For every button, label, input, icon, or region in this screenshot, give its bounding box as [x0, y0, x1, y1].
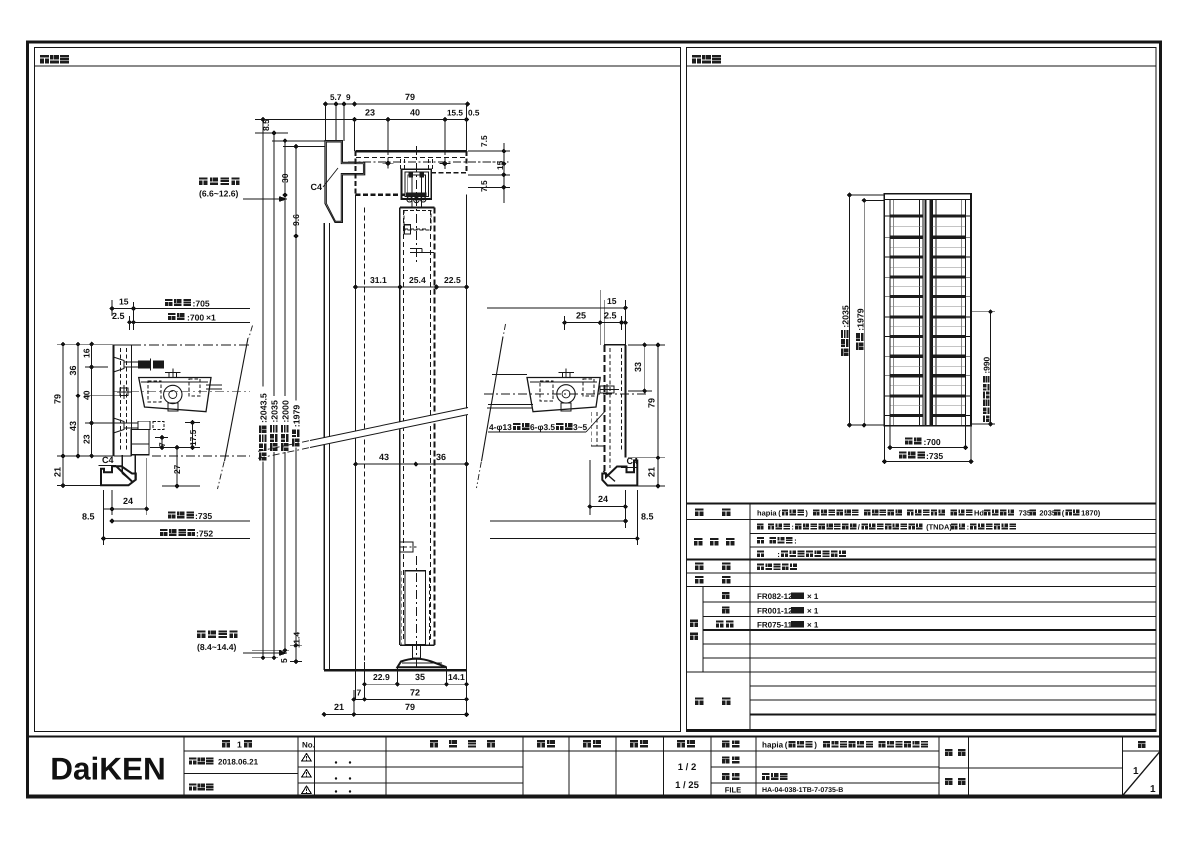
- svg-text:8.5: 8.5: [641, 512, 654, 522]
- svg-text:FR082-12: FR082-12: [757, 592, 793, 601]
- svg-text:FR075-11: FR075-11: [757, 621, 793, 630]
- svg-text:5: 5: [279, 658, 289, 663]
- svg-text:33: 33: [633, 362, 643, 372]
- svg-text:40: 40: [410, 108, 420, 118]
- svg-text:C4: C4: [310, 182, 322, 192]
- svg-text:FILE: FILE: [725, 786, 741, 795]
- svg-text::735: :735: [926, 451, 943, 461]
- svg-text::700: :700: [187, 313, 204, 323]
- svg-text:24: 24: [598, 494, 608, 504]
- svg-text:25.4: 25.4: [409, 275, 426, 285]
- svg-text:23: 23: [82, 434, 92, 444]
- svg-text:7: 7: [157, 442, 167, 447]
- svg-text:7: 7: [357, 688, 362, 698]
- svg-text:23: 23: [365, 108, 375, 118]
- svg-text:17.5: 17.5: [188, 429, 198, 446]
- svg-text:24: 24: [123, 496, 133, 506]
- svg-text::: :: [791, 523, 794, 532]
- svg-text::2043.5: :2043.5: [258, 393, 268, 423]
- svg-text::: :: [777, 550, 780, 559]
- svg-text:735: 735: [1019, 509, 1032, 518]
- svg-text:9.6: 9.6: [291, 214, 301, 226]
- svg-text:1: 1: [237, 740, 242, 750]
- svg-text:2018.06.21: 2018.06.21: [218, 758, 259, 767]
- svg-text:72: 72: [410, 688, 420, 698]
- svg-text:79: 79: [647, 398, 657, 408]
- svg-text:(: (: [785, 741, 788, 750]
- svg-text:C4: C4: [102, 455, 114, 465]
- svg-text:hapia: hapia: [762, 741, 784, 750]
- svg-text:HA-04-038-1TB-7-0735-B: HA-04-038-1TB-7-0735-B: [762, 787, 843, 794]
- svg-text:31.1: 31.1: [370, 275, 387, 285]
- svg-text:35: 35: [415, 672, 425, 682]
- svg-text::1979: :1979: [855, 308, 865, 331]
- svg-text:14.1: 14.1: [448, 672, 465, 682]
- svg-text:43: 43: [379, 452, 389, 462]
- svg-text:21: 21: [647, 467, 657, 477]
- svg-text::705: :705: [193, 299, 210, 309]
- svg-text:15: 15: [119, 297, 129, 307]
- svg-text:43: 43: [68, 421, 78, 431]
- svg-text:79: 79: [405, 702, 415, 712]
- svg-text::990: :990: [981, 356, 991, 373]
- svg-text:Hd: Hd: [974, 509, 984, 518]
- svg-text:FR001-12: FR001-12: [757, 607, 793, 616]
- svg-text:): ): [814, 741, 817, 750]
- svg-text:15.5: 15.5: [447, 109, 463, 118]
- svg-text:No.: No.: [302, 741, 315, 750]
- svg-text:DaiKEN: DaiKEN: [50, 751, 166, 787]
- svg-text:1: 1: [1133, 766, 1139, 777]
- svg-text:15: 15: [607, 296, 617, 306]
- svg-text::2035: :2035: [269, 400, 279, 423]
- svg-text:× 1: × 1: [807, 607, 819, 616]
- svg-text::: :: [967, 523, 970, 532]
- svg-text:79: 79: [405, 92, 415, 102]
- svg-text:×1: ×1: [206, 313, 216, 323]
- svg-text:8.5: 8.5: [82, 512, 95, 522]
- svg-text:× 1: × 1: [807, 592, 819, 601]
- svg-text::2035: :2035: [840, 305, 850, 328]
- svg-text:21: 21: [53, 467, 63, 477]
- svg-text:27: 27: [172, 464, 182, 474]
- svg-text:22.5: 22.5: [444, 275, 461, 285]
- svg-text:1 / 25: 1 / 25: [675, 780, 699, 791]
- svg-text:hapia: hapia: [757, 509, 777, 518]
- svg-text:9: 9: [346, 93, 351, 102]
- svg-text:4-φ13: 4-φ13: [489, 422, 512, 432]
- svg-text:25: 25: [576, 311, 586, 321]
- svg-text:(TNDA): (TNDA): [926, 523, 952, 532]
- svg-text:21: 21: [334, 702, 344, 712]
- svg-text:36: 36: [68, 365, 78, 375]
- svg-text:1: 1: [1150, 784, 1156, 795]
- svg-text:6-φ3.5: 6-φ3.5: [530, 422, 555, 432]
- svg-text::: :: [794, 537, 797, 546]
- svg-text:× 1: × 1: [807, 621, 819, 630]
- svg-text::1979: :1979: [291, 405, 301, 428]
- svg-text::752: :752: [196, 529, 213, 539]
- svg-text:2.5: 2.5: [112, 311, 125, 321]
- svg-text:40: 40: [82, 390, 92, 400]
- svg-text:5.7: 5.7: [330, 93, 342, 102]
- svg-text:0.5: 0.5: [468, 109, 480, 118]
- svg-text:30: 30: [280, 173, 290, 183]
- svg-text::700: :700: [924, 437, 941, 447]
- svg-text::2000: :2000: [280, 400, 290, 423]
- svg-text:2035: 2035: [1039, 509, 1056, 518]
- svg-text:1 / 2: 1 / 2: [678, 762, 697, 773]
- svg-text:2.5: 2.5: [604, 311, 617, 321]
- svg-text:36: 36: [436, 452, 446, 462]
- svg-text:1870): 1870): [1081, 509, 1101, 518]
- svg-text:22.9: 22.9: [373, 672, 390, 682]
- svg-text:(8.4~14.4): (8.4~14.4): [197, 642, 237, 652]
- svg-text:7.5: 7.5: [479, 135, 489, 147]
- svg-text:3~5: 3~5: [573, 422, 588, 432]
- svg-text:7.5: 7.5: [479, 180, 489, 192]
- svg-text::735: :735: [195, 511, 212, 521]
- svg-text:16: 16: [82, 348, 92, 358]
- svg-text:(6.6~12.6): (6.6~12.6): [199, 189, 239, 199]
- svg-text:79: 79: [53, 394, 63, 404]
